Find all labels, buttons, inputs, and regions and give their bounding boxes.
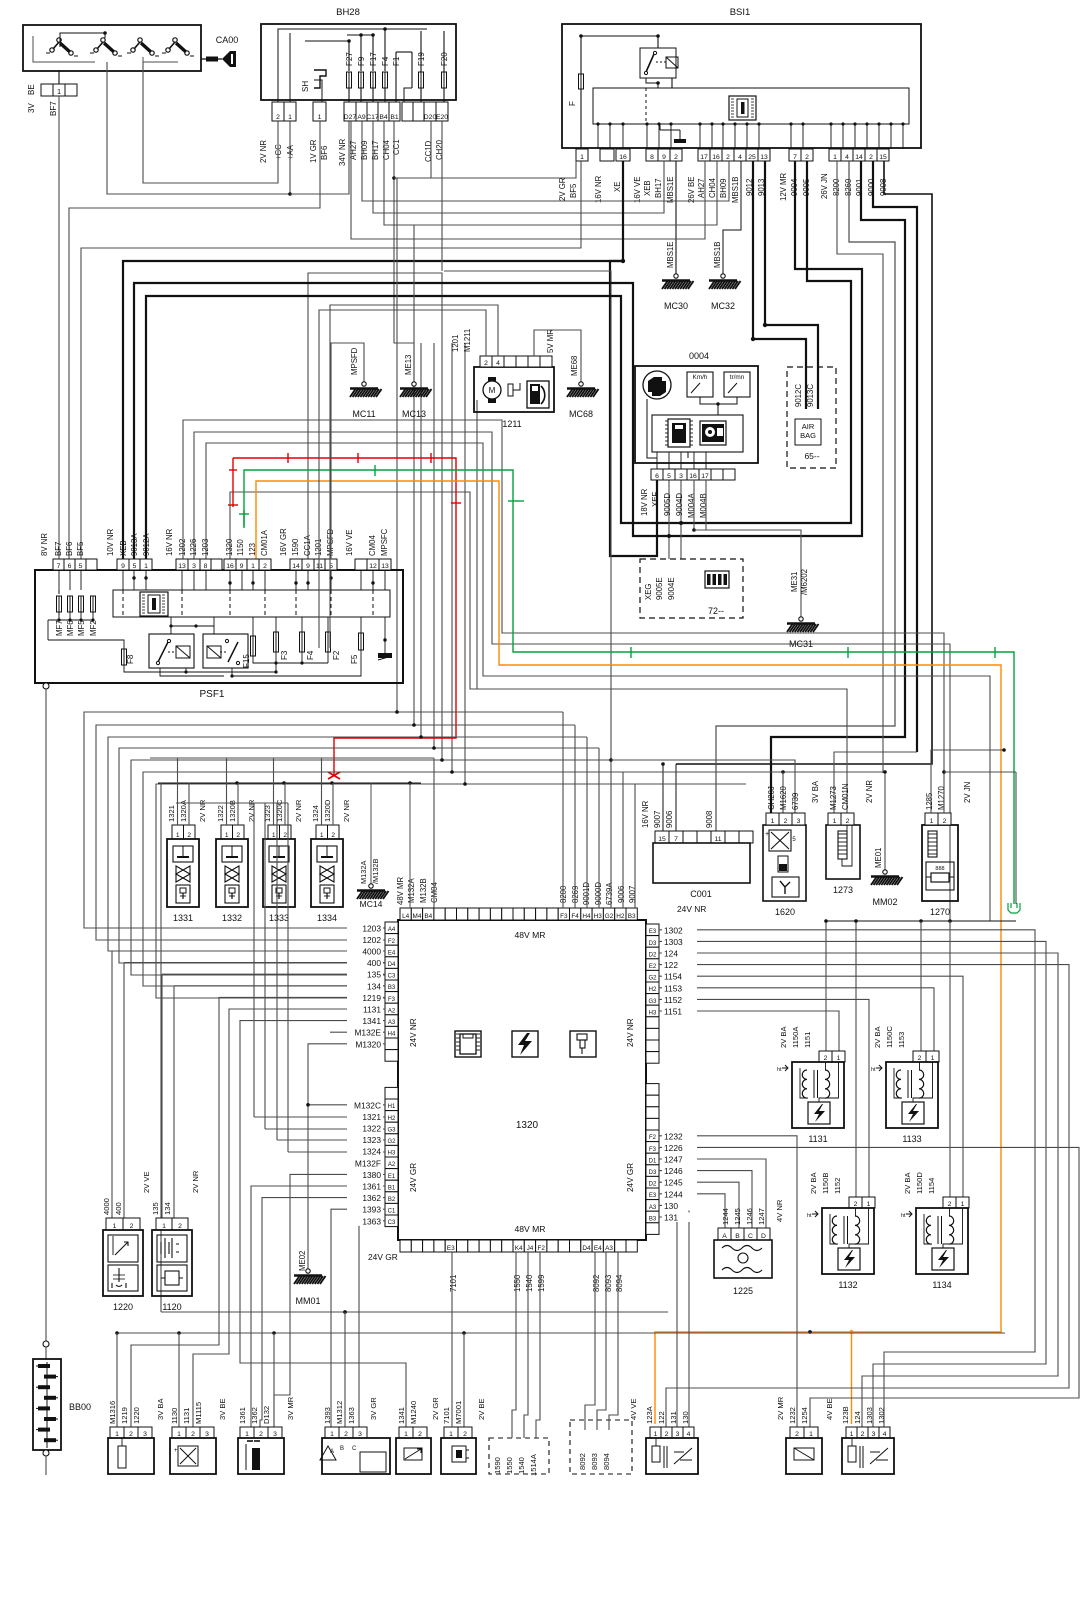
svg-text:M132A: M132A [359, 861, 368, 884]
BSI1 pin row [576, 149, 588, 161]
ECU left stub cells bottom [385, 1087, 398, 1099]
svg-text:CH04: CH04 [708, 177, 717, 198]
svg-text:9012A: 9012A [142, 533, 151, 556]
svg-text:BH28: BH28 [336, 7, 360, 18]
long wire y1312 [161, 1311, 668, 1313]
svg-text:16: 16 [712, 154, 720, 161]
wire 9012 to airbag 9012C [753, 161, 806, 409]
svg-text:BF7: BF7 [49, 101, 58, 116]
svg-text:2: 2 [846, 818, 850, 825]
svg-text:1: 1 [449, 1431, 453, 1438]
svg-text:C001: C001 [690, 889, 712, 899]
wire CH04 [384, 121, 717, 225]
svg-text:F27: F27 [345, 52, 354, 66]
svg-text:130: 130 [681, 1411, 690, 1424]
ground MC11 [350, 382, 382, 397]
svg-text:B2: B2 [388, 1197, 396, 1203]
svg-text:H2: H2 [649, 987, 657, 993]
svg-text:1151: 1151 [664, 1007, 682, 1017]
svg-text:1: 1 [176, 832, 180, 839]
svg-text:C: C [352, 1446, 357, 1452]
svg-text:16V VE: 16V VE [345, 530, 354, 556]
svg-text:M1620: M1620 [779, 785, 788, 810]
svg-text:B: B [340, 1446, 344, 1452]
svg-text:9008: 9008 [705, 811, 714, 828]
svg-text:16V GR: 16V GR [279, 528, 288, 556]
svg-text:135: 135 [367, 970, 381, 980]
svg-text:MM01: MM01 [295, 1296, 320, 1306]
svg-text:1362: 1362 [362, 1193, 381, 1203]
svg-text:A2: A2 [388, 1008, 396, 1014]
svg-text:1: 1 [580, 154, 584, 161]
svg-text:M132F: M132F [355, 1158, 381, 1168]
svg-text:MC11: MC11 [352, 409, 375, 419]
svg-text:3V BA: 3V BA [156, 1398, 165, 1420]
svg-text:D: D [761, 1233, 766, 1240]
svg-text:16V VE: 16V VE [633, 177, 642, 203]
svg-text:1154: 1154 [664, 972, 682, 982]
1270 crystal icon [926, 862, 954, 890]
battery BB00 [33, 1359, 61, 1450]
svg-text:1590: 1590 [493, 1457, 502, 1474]
svg-text:ME31: ME31 [790, 572, 799, 592]
wires 1232/1226 [659, 1136, 797, 1427]
svg-text:7101: 7101 [449, 1275, 458, 1292]
svg-text:10V NR: 10V NR [106, 528, 115, 556]
wire 1285 into 1270 pin 1 [931, 750, 1004, 813]
svg-text:3: 3 [872, 1431, 876, 1438]
svg-text:M132E: M132E [354, 1028, 381, 1038]
svg-text:1: 1 [320, 832, 324, 839]
canister valve connector 4V VE [650, 1427, 661, 1438]
ECU chip icon [455, 1031, 481, 1057]
svg-text:131: 131 [664, 1213, 678, 1223]
sensor connector 1393/M1312/1363 [325, 1427, 339, 1438]
svg-text:M004A: M004A [687, 492, 696, 518]
cluster internal pin wires [656, 452, 658, 469]
frame wires: ECU top pins across to left frames down to ECU left stubs [84, 712, 563, 928]
fuse F9 [359, 72, 364, 88]
svg-text:24V NR: 24V NR [677, 904, 706, 914]
svg-text:48V MR: 48V MR [514, 930, 545, 940]
svg-text:1203: 1203 [362, 923, 381, 933]
svg-text:2: 2 [276, 114, 280, 121]
svg-text:3: 3 [676, 1431, 680, 1438]
MF fuse bus [59, 612, 93, 620]
svg-text:26V JN: 26V JN [820, 173, 829, 199]
svg-text:17: 17 [700, 154, 708, 161]
svg-text:D1: D1 [649, 1158, 657, 1164]
ECU injector icon [570, 1031, 596, 1057]
svg-text:MC32: MC32 [711, 301, 735, 311]
svg-text:1150A: 1150A [791, 1026, 800, 1048]
svg-text:H1: H1 [388, 1104, 396, 1110]
svg-text:1: 1 [850, 1431, 854, 1438]
svg-text:M4: M4 [413, 913, 422, 920]
red wire [233, 458, 456, 776]
svg-text:9004E: 9004E [667, 577, 676, 600]
BSI1 inner bar [593, 88, 909, 124]
wire BH09 [362, 121, 729, 201]
svg-text:F8: F8 [126, 654, 135, 664]
svg-text:1302: 1302 [664, 925, 683, 935]
fuse F17 [371, 72, 376, 88]
svg-text:D3: D3 [649, 941, 657, 947]
svg-text:1150B: 1150B [821, 1173, 830, 1194]
middle bundle verticals [396, 178, 398, 712]
svg-text:MC31: MC31 [789, 639, 813, 649]
svg-text:C3: C3 [388, 1220, 396, 1226]
svg-text:4V BE: 4V BE [825, 1398, 834, 1420]
svg-text:9004D: 9004D [675, 493, 684, 516]
svg-text:1: 1 [318, 114, 322, 121]
6739A / 9006 / 9007 wires [610, 760, 612, 908]
svg-text:H4: H4 [582, 913, 591, 920]
svg-text:4000: 4000 [102, 1198, 111, 1215]
svg-text:2: 2 [861, 1431, 865, 1438]
risers 1321-1324 to ECU left stubs [176, 802, 288, 804]
svg-text:2: 2 [418, 1431, 422, 1438]
svg-text:11: 11 [316, 563, 323, 570]
svg-text:1363: 1363 [362, 1216, 381, 1226]
svg-text:2: 2 [665, 1431, 669, 1438]
svg-text:MBS1E: MBS1E [666, 177, 675, 203]
svg-text:1: 1 [837, 1055, 841, 1062]
svg-text:7: 7 [674, 836, 678, 843]
svg-text:1226: 1226 [664, 1143, 683, 1153]
ignition coil 1132 [849, 1197, 862, 1208]
svg-text:2V NR: 2V NR [342, 799, 351, 822]
svg-text:7: 7 [793, 154, 797, 161]
svg-text:1550: 1550 [505, 1457, 514, 1474]
svg-text:2: 2 [805, 154, 809, 161]
svg-text:1303: 1303 [865, 1407, 874, 1424]
svg-text:134: 134 [367, 981, 381, 991]
1120 crystal icon [157, 1265, 187, 1291]
svg-text:1: 1 [272, 832, 276, 839]
svg-text:M7001: M7001 [454, 1401, 463, 1424]
svg-text:400: 400 [114, 1202, 123, 1215]
svg-text:400: 400 [367, 958, 381, 968]
svg-text:F2: F2 [388, 939, 396, 945]
svg-text:2V NR: 2V NR [865, 780, 874, 803]
wires 1380/1361/1362/1393/1363 [274, 1174, 385, 1427]
fuse F15 [251, 636, 256, 656]
svg-text:1202: 1202 [178, 539, 187, 556]
svg-text:1247: 1247 [757, 1208, 766, 1225]
BSI1 relay [640, 48, 676, 78]
svg-text:XEB: XEB [643, 180, 652, 196]
svg-text:1324: 1324 [311, 805, 320, 822]
ECU bottom pin row [400, 1240, 411, 1252]
svg-text:3: 3 [797, 818, 801, 825]
svg-text:24V GR: 24V GR [626, 1163, 635, 1192]
svg-text:A2: A2 [388, 1162, 396, 1168]
fuse F8 [47, 620, 49, 640]
cluster wires [700, 397, 737, 404]
wire +CC [143, 62, 278, 183]
wire BF5: PSF1 pin 5 to BSI pin 1 [81, 161, 581, 559]
svg-text:BB00: BB00 [69, 1402, 91, 1412]
wire to MC68 [534, 330, 581, 382]
svg-text:1134: 1134 [932, 1280, 951, 1290]
PSF1 internal ground [384, 617, 386, 650]
svg-text:Km/h: Km/h [693, 374, 708, 381]
injector 1334 [316, 825, 328, 839]
fuse box PSF1 [35, 570, 403, 683]
svg-text:M1312: M1312 [335, 1401, 344, 1424]
svg-text:2: 2 [191, 1431, 195, 1438]
svg-text:2: 2 [784, 818, 788, 825]
wires 8092/8093/8094 [585, 1252, 595, 1430]
svg-text:3V: 3V [27, 103, 36, 113]
svg-text:1246: 1246 [745, 1208, 754, 1225]
wire BH17 [373, 121, 664, 213]
svg-text:BH17: BH17 [371, 140, 380, 160]
svg-text:1380: 1380 [362, 1170, 381, 1180]
svg-text:5: 5 [133, 563, 137, 570]
1220 temp icon [108, 1265, 138, 1291]
svg-text:1590: 1590 [291, 538, 300, 556]
svg-text:72--: 72-- [708, 606, 724, 616]
riser PSF1 1226 to right side [194, 432, 950, 921]
svg-text:tr/mn: tr/mn [730, 374, 745, 381]
svg-text:2: 2 [943, 818, 947, 825]
1620 battery icon [778, 856, 788, 872]
PSF1 pin stubs into bar [58, 570, 60, 590]
relay 2 in PSF1 [203, 634, 248, 668]
wire 9013A thick: PSF1 to BSI 9004 wrapping around cluster [134, 161, 862, 559]
fuse F27 [347, 72, 352, 88]
svg-text:A: A [722, 1233, 727, 1240]
svg-text:1131: 1131 [808, 1134, 827, 1144]
injector bus wires [150, 757, 434, 759]
engine icon circle [643, 371, 671, 399]
svg-text:9007: 9007 [628, 886, 637, 903]
svg-text:BH17: BH17 [654, 178, 663, 198]
svg-text:1150: 1150 [236, 539, 245, 556]
svg-text:2V BA: 2V BA [873, 1026, 882, 1048]
svg-text:3V MR: 3V MR [286, 1396, 295, 1420]
svg-text:9001: 9001 [855, 179, 864, 196]
svg-text:1620: 1620 [775, 907, 795, 917]
svg-text:2V MR: 2V MR [776, 1396, 785, 1420]
risers from bottom bus to comps [115, 1331, 119, 1335]
ECU spark icon [512, 1031, 538, 1057]
svg-text:E3: E3 [447, 1245, 455, 1252]
svg-text:2: 2 [869, 154, 873, 161]
svg-text:1246: 1246 [664, 1166, 683, 1176]
svg-text:130: 130 [664, 1201, 678, 1211]
svg-text:H2: H2 [388, 1116, 396, 1122]
ECU left stub labels bottom [348, 1100, 383, 1110]
svg-text:A3: A3 [649, 1205, 657, 1211]
svg-text:2: 2 [948, 1201, 952, 1208]
svg-text:1: 1 [144, 563, 148, 570]
svg-text:1153: 1153 [664, 983, 682, 993]
svg-text:4V VE: 4V VE [629, 1398, 638, 1420]
svg-text:/M6202: /M6202 [800, 569, 809, 595]
motor M icon [483, 381, 501, 399]
svg-text:26V BE: 26V BE [687, 177, 696, 203]
svg-text:16V NR: 16V NR [641, 800, 650, 828]
svg-text:2V GR: 2V GR [558, 177, 567, 201]
svg-text:1: 1 [404, 1431, 408, 1438]
relay connector 2V MR [790, 1427, 804, 1438]
wire CC1D [394, 121, 431, 178]
svg-text:CM01A: CM01A [260, 529, 269, 556]
coil supply risers [825, 921, 827, 1051]
svg-text:1363: 1363 [347, 1407, 356, 1424]
svg-text:MF7: MF7 [55, 620, 64, 636]
svg-text:D27: D27 [344, 114, 357, 121]
svg-text:5: 5 [667, 473, 671, 480]
svg-text:1: 1 [225, 832, 229, 839]
svg-text:1362: 1362 [250, 1407, 259, 1424]
wire MBS1E to ground [675, 161, 677, 274]
svg-text:G2: G2 [648, 976, 657, 982]
svg-text:MC68: MC68 [569, 409, 593, 419]
BH28 pin row [272, 102, 284, 121]
svg-text:B4: B4 [424, 913, 432, 920]
72 connector icon [705, 571, 729, 588]
long wire y1333 [117, 1332, 1005, 1334]
connector C001 [655, 831, 669, 843]
svg-text:1211: 1211 [502, 419, 521, 429]
svg-text:F9: F9 [357, 56, 366, 66]
M132E / M1320 stubs [330, 1031, 385, 1033]
M132C wire to MM01 ground [308, 1104, 385, 1106]
svg-text:C3: C3 [388, 974, 396, 980]
svg-text:8093: 8093 [590, 1453, 599, 1470]
wire XE/XEB: BSI pin 16 to PSF1 pin 9 [123, 261, 623, 559]
svg-text:1341: 1341 [362, 1016, 381, 1026]
ignition key symbol [201, 51, 236, 67]
battery bottom terminal [43, 1450, 49, 1456]
svg-text:124: 124 [664, 949, 678, 959]
1620 clock icon [772, 877, 799, 897]
svg-text:M1270: M1270 [937, 785, 946, 810]
svg-text:2: 2 [259, 1431, 263, 1438]
svg-text:1321: 1321 [167, 805, 176, 822]
svg-text:E4: E4 [388, 950, 396, 956]
svg-text:1333: 1333 [269, 913, 289, 923]
svg-text:1225: 1225 [733, 1286, 753, 1296]
svg-text:122: 122 [657, 1411, 666, 1424]
wire y921 [921, 920, 1016, 922]
svg-text:D2: D2 [649, 952, 657, 958]
svg-text:1: 1 [771, 818, 775, 825]
svg-text:8092: 8092 [578, 1453, 587, 1470]
svg-text:+: + [174, 1448, 178, 1454]
svg-text:2: 2 [674, 154, 678, 161]
svg-text:1540: 1540 [517, 1457, 526, 1474]
svg-text:A: A [330, 1449, 334, 1455]
svg-text:24V GR: 24V GR [368, 1252, 398, 1262]
svg-text:1244: 1244 [721, 1208, 730, 1225]
svg-text:M1273: M1273 [829, 786, 838, 810]
0004 pin row [651, 469, 663, 480]
svg-text:14: 14 [292, 563, 300, 570]
svg-text:2: 2 [344, 1431, 348, 1438]
svg-text:M004B: M004B [699, 493, 708, 518]
svg-text:1: 1 [654, 1431, 658, 1438]
PSF1 pin row [53, 559, 64, 570]
ECU right stub labels top [662, 925, 696, 935]
svg-text:H3: H3 [594, 913, 603, 920]
svg-text:9: 9 [240, 563, 244, 570]
svg-text:1361: 1361 [362, 1182, 381, 1192]
svg-text:ht: ht [777, 1067, 782, 1073]
svg-text:2V NR: 2V NR [191, 1170, 200, 1193]
svg-text:2V BA: 2V BA [903, 1172, 912, 1194]
svg-text:2: 2 [283, 832, 287, 839]
svg-text:MF2: MF2 [89, 620, 98, 636]
svg-text:A3: A3 [605, 1245, 613, 1252]
svg-text:1324: 1324 [362, 1147, 381, 1157]
wires 1550/1540/1599 [512, 1252, 516, 1438]
svg-text:4: 4 [883, 1431, 887, 1438]
wires 1247..1244 to 1225 [659, 1159, 766, 1228]
svg-text:MBS1B: MBS1B [731, 177, 740, 203]
svg-text:PSF1: PSF1 [199, 689, 224, 700]
svg-text:1247: 1247 [664, 1155, 683, 1165]
svg-text:2: 2 [331, 832, 335, 839]
svg-text:1321: 1321 [362, 1112, 381, 1122]
svg-text:1550: 1550 [513, 1274, 522, 1292]
svg-text:34V NR: 34V NR [338, 138, 347, 166]
green connector symbol [1008, 903, 1020, 913]
svg-text:C1: C1 [388, 1209, 396, 1215]
svg-text:4: 4 [738, 154, 742, 161]
svg-text:F2: F2 [332, 650, 341, 660]
riser PSF1 1320 to 1273 [230, 492, 847, 813]
engine ECU 1320 [398, 920, 646, 1240]
svg-text:BF7: BF7 [54, 542, 63, 556]
svg-text:F5: F5 [350, 654, 359, 664]
svg-text:1132: 1132 [838, 1280, 857, 1290]
wire CA00 pin to connector [58, 71, 60, 84]
svg-text:1: 1 [113, 1223, 117, 1230]
BSI1 bar pin dots [596, 122, 599, 125]
svg-text:ME02: ME02 [298, 1251, 307, 1271]
svg-text:1361: 1361 [238, 1407, 247, 1424]
svg-text:MF5: MF5 [77, 620, 86, 636]
air temp sensor 1341/M1240 [399, 1427, 413, 1438]
svg-text:G2: G2 [387, 1139, 396, 1145]
svg-text:1334: 1334 [317, 913, 337, 923]
svg-text:24V GR: 24V GR [409, 1163, 418, 1192]
svg-text:M: M [489, 386, 496, 395]
svg-text:2V BA: 2V BA [779, 1026, 788, 1048]
svg-text:CH20: CH20 [435, 139, 444, 160]
svg-text:1245: 1245 [733, 1208, 742, 1225]
svg-text:1273: 1273 [833, 885, 853, 895]
ground MC32 [709, 274, 741, 289]
wire M1620 to ground MM02 [783, 771, 885, 773]
svg-text:16V NR: 16V NR [165, 528, 174, 556]
injector 1333 [268, 825, 280, 839]
ignition module 1225 [718, 1228, 731, 1240]
sensor connector M1316/1219/1220 [110, 1427, 124, 1438]
fuel pump 1211 [474, 367, 554, 412]
fuse F3 [274, 632, 279, 652]
svg-text:CM01N: CM01N [841, 784, 850, 810]
svg-text:17: 17 [701, 473, 709, 480]
svg-text:24V NR: 24V NR [409, 1018, 418, 1047]
svg-text:9: 9 [662, 154, 666, 161]
valve connector 4V BE [846, 1427, 857, 1438]
